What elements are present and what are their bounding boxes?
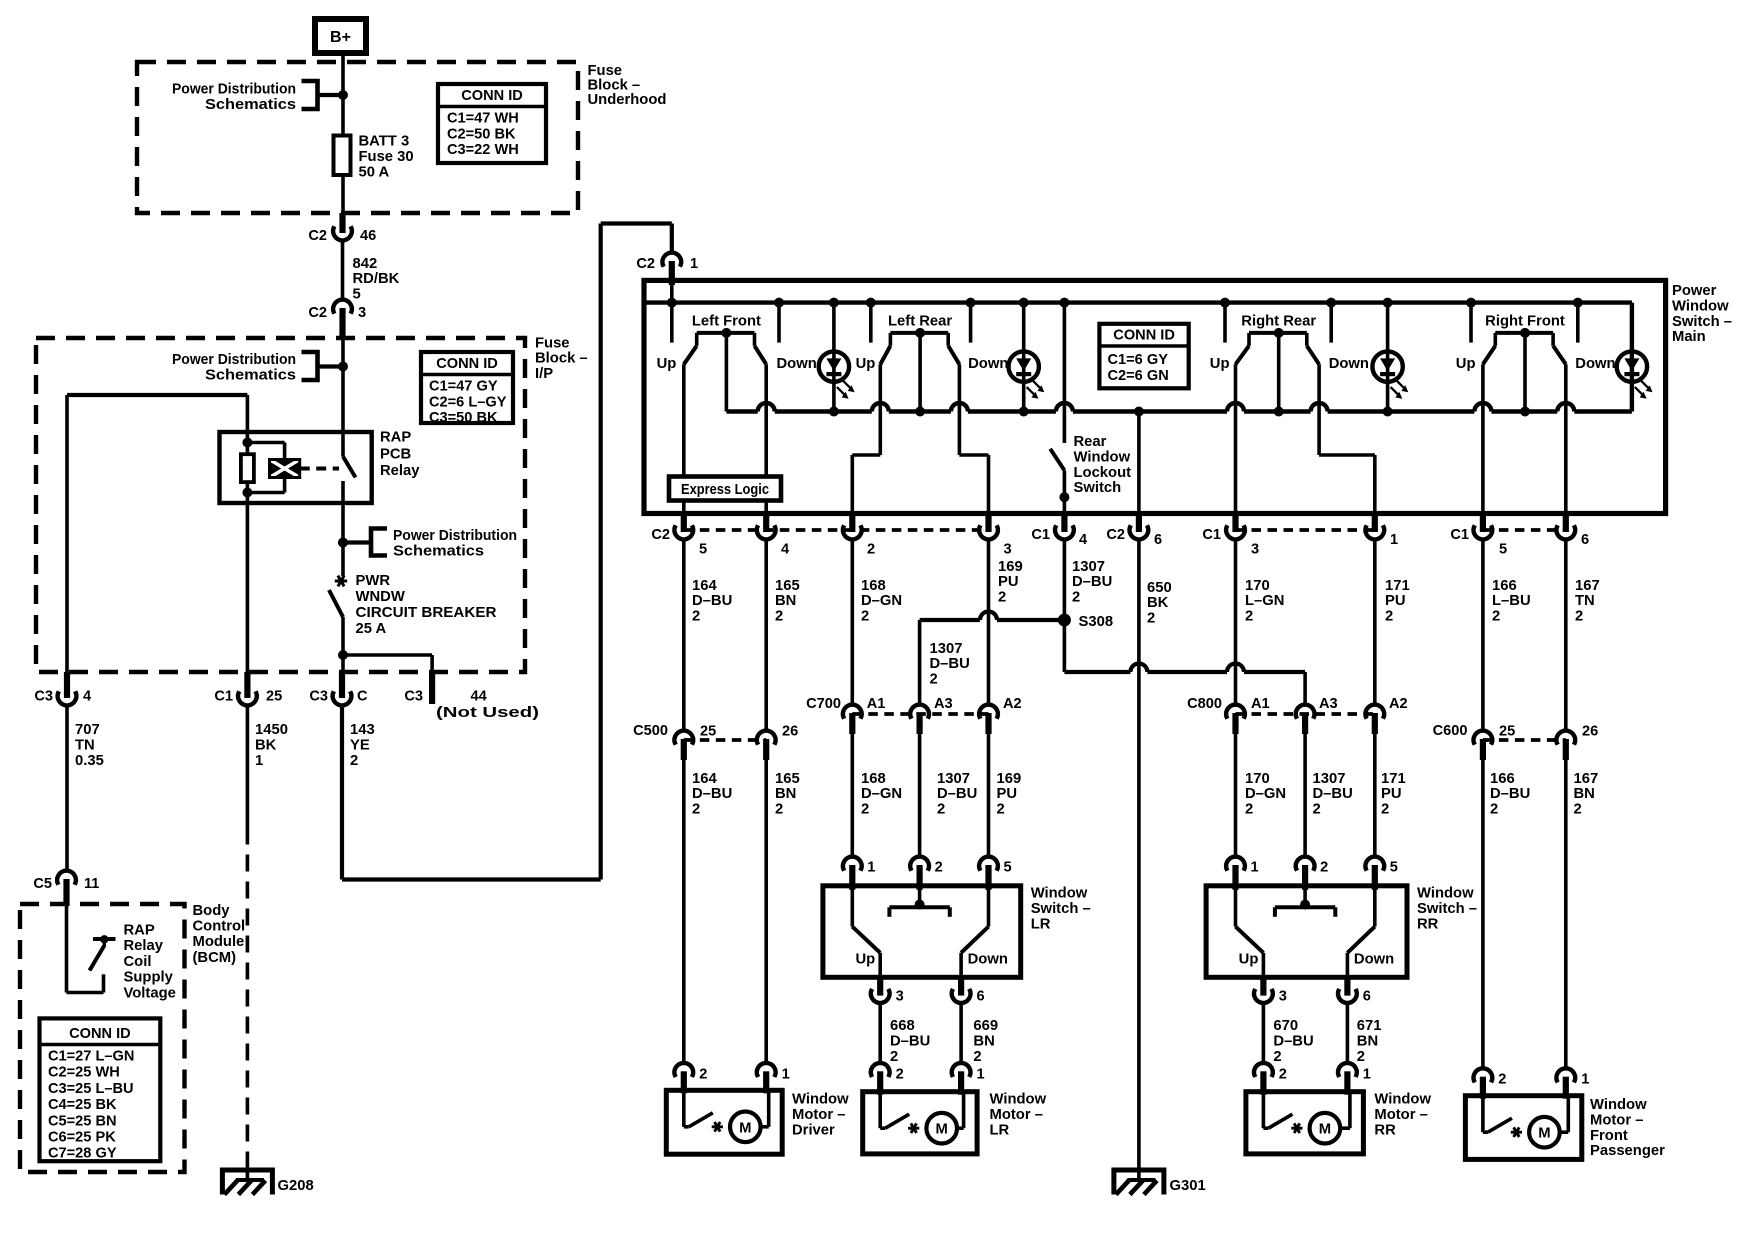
- svg-text:Window: Window: [1374, 1092, 1431, 1108]
- svg-text:Window: Window: [1031, 886, 1088, 902]
- svg-text:2: 2: [699, 1066, 707, 1082]
- svg-text:D–BU: D–BU: [890, 1033, 930, 1049]
- svg-text:Fuse: Fuse: [588, 63, 623, 79]
- svg-text:D–BU: D–BU: [692, 786, 732, 802]
- svg-text:169: 169: [998, 559, 1023, 575]
- svg-text:5: 5: [1004, 860, 1012, 876]
- svg-text:A2: A2: [1003, 696, 1022, 712]
- svg-text:D–GN: D–GN: [1245, 786, 1286, 802]
- svg-text:Right Front: Right Front: [1485, 314, 1565, 330]
- svg-text:A3: A3: [1319, 696, 1338, 712]
- svg-text:5: 5: [699, 542, 707, 558]
- svg-text:Up: Up: [1239, 952, 1259, 968]
- svg-text:2: 2: [1381, 801, 1389, 817]
- svg-text:BN: BN: [775, 593, 796, 609]
- svg-text:Motor –: Motor –: [1374, 1107, 1427, 1123]
- svg-text:5: 5: [1390, 860, 1398, 876]
- svg-text:Window: Window: [990, 1092, 1047, 1108]
- svg-text:D–BU: D–BU: [692, 593, 732, 609]
- svg-text:(BCM): (BCM): [193, 950, 237, 966]
- svg-text:Left Rear: Left Rear: [888, 314, 952, 330]
- svg-text:3: 3: [358, 305, 366, 321]
- svg-text:171: 171: [1381, 771, 1406, 787]
- svg-text:Down: Down: [968, 952, 1008, 968]
- svg-text:PU: PU: [1381, 786, 1402, 802]
- svg-text:1: 1: [1581, 1072, 1589, 1088]
- svg-text:Voltage: Voltage: [124, 985, 176, 1001]
- svg-text:2: 2: [1245, 801, 1253, 817]
- svg-text:RAP: RAP: [380, 430, 411, 446]
- svg-text:D–BU: D–BU: [1273, 1033, 1313, 1049]
- svg-text:Driver: Driver: [792, 1122, 835, 1138]
- svg-text:C3=22 WH: C3=22 WH: [447, 142, 519, 158]
- svg-text:PU: PU: [998, 574, 1019, 590]
- svg-text:RAP: RAP: [124, 923, 155, 939]
- svg-text:Passenger: Passenger: [1590, 1143, 1665, 1159]
- svg-text:Up: Up: [855, 952, 875, 968]
- svg-text:Down: Down: [1575, 356, 1615, 372]
- svg-text:D–GN: D–GN: [861, 786, 902, 802]
- svg-text:2: 2: [973, 1049, 981, 1065]
- svg-text:Motor –: Motor –: [990, 1107, 1043, 1123]
- svg-text:2: 2: [1245, 608, 1253, 624]
- svg-text:2: 2: [1385, 608, 1393, 624]
- svg-text:2: 2: [935, 860, 943, 876]
- svg-text:BK: BK: [255, 738, 277, 754]
- svg-text:C500: C500: [633, 723, 668, 739]
- svg-text:C3: C3: [34, 689, 53, 705]
- svg-text:3: 3: [1251, 542, 1259, 558]
- svg-text:C2: C2: [308, 228, 327, 244]
- svg-text:6: 6: [1154, 532, 1162, 548]
- svg-text:M: M: [1319, 1122, 1331, 1138]
- svg-text:1: 1: [690, 256, 698, 272]
- svg-text:C1=47 WH: C1=47 WH: [447, 111, 519, 127]
- svg-text:PCB: PCB: [380, 446, 412, 462]
- svg-text:6: 6: [1581, 532, 1589, 548]
- svg-text:G208: G208: [278, 1178, 314, 1194]
- svg-text:C1=27 L–GN: C1=27 L–GN: [48, 1049, 134, 1065]
- svg-text:26: 26: [782, 724, 798, 740]
- svg-text:M: M: [936, 1122, 948, 1138]
- svg-text:2: 2: [861, 608, 869, 624]
- svg-text:168: 168: [861, 771, 886, 787]
- svg-text:3: 3: [1279, 989, 1287, 1005]
- svg-text:2: 2: [1575, 608, 1583, 624]
- svg-text:1: 1: [782, 1066, 790, 1082]
- svg-text:C: C: [357, 689, 368, 705]
- svg-text:Supply: Supply: [124, 970, 174, 986]
- svg-text:C3=50 BK: C3=50 BK: [429, 410, 498, 426]
- svg-text:167: 167: [1574, 771, 1599, 787]
- svg-text:2: 2: [1490, 801, 1498, 817]
- svg-text:650: 650: [1147, 580, 1172, 596]
- svg-text:BK: BK: [1147, 595, 1169, 611]
- svg-text:669: 669: [973, 1018, 998, 1034]
- svg-text:C2=6 L–GY: C2=6 L–GY: [429, 394, 507, 410]
- svg-text:1307: 1307: [930, 641, 963, 657]
- svg-text:25: 25: [700, 724, 716, 740]
- svg-text:RD/BK: RD/BK: [353, 271, 400, 287]
- svg-text:LR: LR: [1031, 916, 1051, 932]
- svg-text:D–BU: D–BU: [1313, 786, 1353, 802]
- svg-text:BN: BN: [1574, 786, 1595, 802]
- svg-text:BATT 3: BATT 3: [359, 134, 410, 150]
- svg-text:Switch: Switch: [1074, 480, 1122, 496]
- svg-text:25 A: 25 A: [356, 621, 387, 637]
- svg-text:2: 2: [998, 589, 1006, 605]
- svg-text:C1: C1: [1202, 527, 1221, 543]
- svg-text:2: 2: [997, 801, 1005, 817]
- svg-text:2: 2: [861, 801, 869, 817]
- svg-text:A1: A1: [867, 696, 886, 712]
- svg-text:Power Distribution: Power Distribution: [172, 352, 296, 368]
- svg-text:C3: C3: [404, 689, 423, 705]
- svg-text:2: 2: [937, 801, 945, 817]
- svg-text:C1: C1: [1450, 527, 1469, 543]
- svg-text:Block –: Block –: [535, 351, 588, 367]
- svg-text:D–BU: D–BU: [1072, 574, 1112, 590]
- svg-text:Switch –: Switch –: [1417, 901, 1477, 917]
- svg-text:PU: PU: [997, 786, 1018, 802]
- svg-text:LR: LR: [990, 1122, 1010, 1138]
- svg-text:Fuse: Fuse: [535, 336, 570, 352]
- svg-text:6: 6: [1363, 989, 1371, 1005]
- svg-text:Window: Window: [1590, 1097, 1647, 1113]
- svg-text:44: 44: [471, 689, 488, 705]
- svg-text:C2: C2: [308, 305, 327, 321]
- svg-text:2: 2: [775, 608, 783, 624]
- svg-text:3: 3: [1004, 542, 1012, 558]
- svg-text:2: 2: [692, 608, 700, 624]
- svg-text:C1=47 GY: C1=47 GY: [429, 379, 498, 395]
- svg-text:670: 670: [1273, 1018, 1298, 1034]
- svg-text:Window: Window: [1417, 886, 1474, 902]
- svg-text:Down: Down: [1354, 952, 1394, 968]
- svg-text:C1: C1: [1031, 527, 1050, 543]
- svg-text:Underhood: Underhood: [588, 92, 667, 108]
- svg-text:C800: C800: [1187, 696, 1222, 712]
- svg-text:BN: BN: [775, 786, 796, 802]
- svg-text:PU: PU: [1385, 593, 1406, 609]
- svg-text:Schematics: Schematics: [205, 368, 296, 384]
- svg-text:RR: RR: [1374, 1122, 1396, 1138]
- svg-text:1: 1: [1363, 1066, 1371, 1082]
- svg-text:4: 4: [781, 542, 790, 558]
- svg-text:L–GN: L–GN: [1245, 593, 1284, 609]
- svg-text:C6=25 PK: C6=25 PK: [48, 1130, 116, 1146]
- svg-text:D–GN: D–GN: [861, 593, 902, 609]
- svg-text:C5=25 BN: C5=25 BN: [48, 1113, 117, 1129]
- svg-text:2: 2: [350, 753, 358, 769]
- svg-text:Control: Control: [193, 919, 246, 935]
- svg-text:L–BU: L–BU: [1492, 593, 1531, 609]
- svg-text:2: 2: [1147, 610, 1155, 626]
- svg-text:TN: TN: [1575, 593, 1595, 609]
- svg-text:Express Logic: Express Logic: [681, 482, 769, 498]
- svg-text:166: 166: [1490, 771, 1515, 787]
- svg-text:2: 2: [1357, 1049, 1365, 1065]
- svg-text:2: 2: [1320, 860, 1328, 876]
- svg-text:5: 5: [353, 286, 361, 302]
- svg-text:C1=6 GY: C1=6 GY: [1108, 352, 1169, 368]
- svg-text:Schematics: Schematics: [205, 97, 296, 113]
- svg-text:1: 1: [867, 860, 875, 876]
- svg-text:Right Rear: Right Rear: [1241, 314, 1316, 330]
- svg-text:D–BU: D–BU: [1490, 786, 1530, 802]
- svg-text:C5: C5: [33, 876, 52, 892]
- svg-text:11: 11: [84, 876, 99, 892]
- svg-text:Up: Up: [1456, 356, 1476, 372]
- svg-text:YE: YE: [350, 738, 370, 754]
- svg-text:Front: Front: [1590, 1128, 1628, 1144]
- svg-text:A1: A1: [1251, 696, 1270, 712]
- svg-text:1: 1: [977, 1066, 985, 1082]
- svg-text:A2: A2: [1389, 696, 1408, 712]
- svg-text:1: 1: [255, 753, 263, 769]
- svg-text:C2: C2: [1106, 527, 1125, 543]
- svg-text:C1: C1: [214, 689, 233, 705]
- svg-text:A3: A3: [934, 696, 953, 712]
- svg-text:C2: C2: [651, 527, 670, 543]
- svg-text:Fuse 30: Fuse 30: [359, 149, 414, 165]
- svg-text:Block –: Block –: [588, 78, 641, 94]
- svg-text:C2=50 BK: C2=50 BK: [447, 126, 516, 142]
- svg-text:164: 164: [692, 771, 717, 787]
- svg-text:Window: Window: [792, 1092, 849, 1108]
- svg-text:CONN ID: CONN ID: [461, 88, 523, 104]
- svg-text:M: M: [739, 1120, 751, 1136]
- svg-text:CONN ID: CONN ID: [69, 1026, 131, 1042]
- svg-text:170: 170: [1245, 578, 1270, 594]
- svg-text:165: 165: [775, 578, 800, 594]
- svg-text:2: 2: [1492, 608, 1500, 624]
- svg-text:2: 2: [890, 1049, 898, 1065]
- svg-text:1307: 1307: [937, 771, 970, 787]
- svg-text:168: 168: [861, 578, 886, 594]
- svg-text:1307: 1307: [1072, 559, 1105, 575]
- svg-text:Up: Up: [856, 356, 876, 372]
- svg-text:Motor –: Motor –: [792, 1107, 845, 1123]
- svg-text:TN: TN: [75, 738, 95, 754]
- svg-text:1307: 1307: [1313, 771, 1346, 787]
- svg-text:S308: S308: [1079, 614, 1114, 630]
- svg-text:Down: Down: [777, 356, 817, 372]
- svg-text:BN: BN: [1357, 1033, 1378, 1049]
- svg-text:4: 4: [1079, 532, 1088, 548]
- svg-text:Main: Main: [1672, 329, 1706, 345]
- svg-text:Switch –: Switch –: [1672, 314, 1732, 330]
- svg-text:2: 2: [896, 1066, 904, 1082]
- svg-text:B+: B+: [330, 29, 351, 46]
- svg-text:CIRCUIT BREAKER: CIRCUIT BREAKER: [356, 605, 497, 621]
- svg-text:Coil: Coil: [124, 954, 152, 970]
- svg-text:Power: Power: [1672, 283, 1717, 299]
- svg-text:0.35: 0.35: [75, 753, 104, 769]
- svg-text:G301: G301: [1170, 1178, 1206, 1194]
- svg-text:D–BU: D–BU: [930, 656, 970, 672]
- svg-text:5: 5: [1499, 542, 1507, 558]
- svg-text:2: 2: [1279, 1066, 1287, 1082]
- svg-text:50 A: 50 A: [359, 165, 390, 181]
- svg-text:3: 3: [896, 989, 904, 1005]
- svg-text:Motor –: Motor –: [1590, 1112, 1643, 1128]
- svg-text:842: 842: [353, 256, 378, 272]
- svg-text:171: 171: [1385, 578, 1410, 594]
- svg-text:170: 170: [1245, 771, 1270, 787]
- svg-text:C3=25 L–BU: C3=25 L–BU: [48, 1081, 134, 1097]
- svg-text:CONN ID: CONN ID: [436, 356, 498, 372]
- svg-text:C7=28 GY: C7=28 GY: [48, 1146, 117, 1162]
- svg-text:668: 668: [890, 1018, 915, 1034]
- svg-text:C600: C600: [1433, 723, 1468, 739]
- svg-text:Schematics: Schematics: [393, 544, 484, 560]
- svg-text:26: 26: [1582, 724, 1598, 740]
- svg-text:2: 2: [1498, 1072, 1506, 1088]
- svg-text:2: 2: [1313, 801, 1321, 817]
- svg-text:Down: Down: [1329, 356, 1369, 372]
- svg-text:2: 2: [1072, 589, 1080, 605]
- svg-text:1: 1: [1390, 532, 1398, 548]
- svg-text:Window: Window: [1672, 298, 1729, 314]
- svg-text:Relay: Relay: [380, 463, 420, 479]
- svg-text:CONN ID: CONN ID: [1113, 328, 1175, 344]
- svg-text:Power Distribution: Power Distribution: [172, 82, 296, 98]
- svg-text:2: 2: [930, 671, 938, 687]
- svg-text:C2: C2: [636, 256, 655, 272]
- svg-text:166: 166: [1492, 578, 1517, 594]
- svg-text:1: 1: [1251, 860, 1259, 876]
- svg-text:1450: 1450: [255, 722, 288, 738]
- svg-text:4: 4: [83, 689, 92, 705]
- svg-text:167: 167: [1575, 578, 1600, 594]
- svg-text:2: 2: [775, 801, 783, 817]
- svg-text:(Not Used): (Not Used): [436, 705, 539, 721]
- svg-text:PWR: PWR: [356, 573, 391, 589]
- svg-text:2: 2: [867, 542, 875, 558]
- svg-text:Power Distribution: Power Distribution: [393, 528, 517, 544]
- svg-text:164: 164: [692, 578, 717, 594]
- svg-text:Up: Up: [657, 356, 677, 372]
- svg-text:C2=25 WH: C2=25 WH: [48, 1065, 120, 1081]
- svg-text:RR: RR: [1417, 916, 1439, 932]
- svg-text:Module: Module: [193, 934, 245, 950]
- svg-text:C3: C3: [309, 689, 328, 705]
- svg-text:Up: Up: [1210, 356, 1230, 372]
- svg-text:2: 2: [1273, 1049, 1281, 1065]
- svg-text:I/P: I/P: [535, 366, 553, 382]
- svg-text:Left Front: Left Front: [692, 314, 761, 330]
- svg-text:6: 6: [977, 989, 985, 1005]
- svg-text:C2=6 GN: C2=6 GN: [1108, 368, 1169, 384]
- svg-text:Down: Down: [968, 356, 1008, 372]
- svg-text:BN: BN: [973, 1033, 994, 1049]
- svg-text:Window: Window: [1074, 449, 1131, 465]
- svg-text:C700: C700: [806, 696, 841, 712]
- svg-text:M: M: [1538, 1126, 1550, 1142]
- svg-text:WNDW: WNDW: [356, 589, 405, 605]
- svg-text:46: 46: [360, 228, 376, 244]
- svg-text:25: 25: [1499, 724, 1515, 740]
- svg-text:Relay: Relay: [124, 938, 164, 954]
- svg-text:Switch –: Switch –: [1031, 901, 1091, 917]
- svg-text:Body: Body: [193, 903, 231, 919]
- svg-text:2: 2: [1574, 801, 1582, 817]
- svg-text:143: 143: [350, 722, 375, 738]
- svg-text:2: 2: [692, 801, 700, 817]
- svg-text:671: 671: [1357, 1018, 1382, 1034]
- svg-text:165: 165: [775, 771, 800, 787]
- svg-text:707: 707: [75, 722, 100, 738]
- svg-text:C4=25 BK: C4=25 BK: [48, 1097, 117, 1113]
- svg-text:25: 25: [266, 689, 282, 705]
- svg-text:Rear: Rear: [1074, 434, 1107, 450]
- svg-text:D–BU: D–BU: [937, 786, 977, 802]
- svg-text:Lockout: Lockout: [1074, 465, 1132, 481]
- svg-text:169: 169: [997, 771, 1022, 787]
